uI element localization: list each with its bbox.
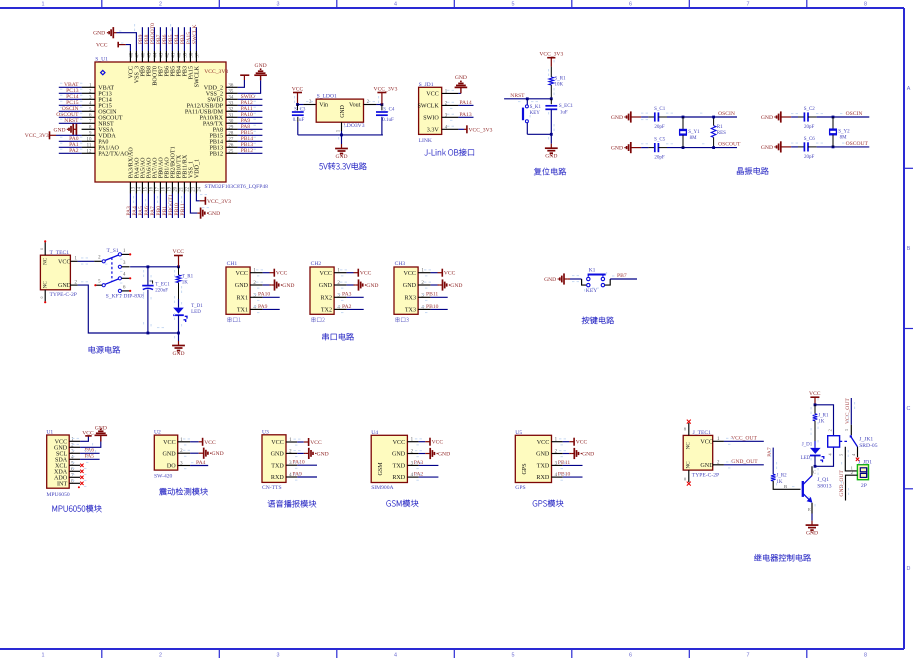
ground at MCU pin 47 VSS_3 — [93, 27, 136, 51]
svg-text:S_R1: S_R1 — [555, 77, 567, 82]
svg-text:SWCLK: SWCLK — [194, 65, 200, 87]
title 5V to 3.3V circuit — [319, 163, 367, 170]
svg-text:PB10: PB10 — [426, 304, 439, 310]
ground at MCU pin 35 VSS_2 — [238, 63, 267, 94]
svg-text:TXD: TXD — [271, 463, 284, 469]
svg-text:8: 8 — [864, 1, 867, 7]
module U1 MPU6050 — [46, 430, 80, 499]
svg-text:U3: U3 — [262, 429, 269, 435]
svg-text:GND: GND — [761, 145, 773, 151]
svg-text:E: E — [808, 507, 811, 512]
wire and net label PA14 on J-Link pin 2 — [458, 100, 473, 106]
power port VCC_3V3 at MCU pin 24 VDD_1 — [196, 194, 231, 205]
svg-text:SIM900A: SIM900A — [371, 485, 393, 491]
junction crystal bottom — [682, 146, 685, 149]
no-connect X on MPU6050 pin 8 — [80, 482, 83, 485]
svg-text:VCC: VCC — [173, 249, 185, 255]
power port VCC on CH3 pin 1 — [431, 269, 456, 277]
power port VCC on U3 pin 1 — [297, 438, 322, 446]
svg-text:20pF: 20pF — [804, 155, 815, 160]
MCU right net label wires SWIO..PB12 — [238, 94, 263, 154]
junction relay VCC node — [814, 403, 817, 406]
svg-text:PB11: PB11 — [426, 292, 438, 298]
svg-text:SWCLK: SWCLK — [192, 25, 198, 45]
svg-text:5: 5 — [512, 1, 515, 7]
svg-text:OSCOUT: OSCOUT — [846, 141, 869, 147]
ground on CH1 pin 2 — [263, 279, 295, 290]
svg-text:GND: GND — [611, 115, 623, 121]
svg-text:GND: GND — [544, 277, 556, 283]
svg-text:PB11: PB11 — [180, 203, 186, 215]
svg-text:GND: GND — [212, 451, 224, 457]
svg-text:A: A — [907, 86, 911, 92]
wire and net label PA2 on U4 pin 4 — [414, 472, 439, 478]
no-connect X on MPU6050 pin 7 — [80, 476, 83, 479]
label serial port 2 — [311, 317, 324, 322]
svg-text:GND: GND — [806, 531, 818, 537]
power port VCC at MCU pin 48 — [96, 42, 130, 51]
svg-text:T_TEC1: T_TEC1 — [50, 250, 70, 256]
svg-text:TYPE-C-2P: TYPE-C-2P — [692, 472, 719, 478]
svg-text:4: 4 — [394, 1, 397, 7]
svg-text:VCC: VCC — [292, 87, 304, 93]
svg-text:VCC: VCC — [96, 42, 108, 48]
svg-text:PA4: PA4 — [196, 460, 206, 466]
power port VCC on MPU6050 pin 1 — [80, 430, 94, 441]
wire J-Link pin 1 to ground — [458, 92, 461, 94]
svg-text:VCC: VCC — [537, 440, 550, 446]
ground symbol (power circuit) — [172, 333, 185, 357]
svg-text:2: 2 — [828, 429, 833, 431]
svg-text:VDD_1: VDD_1 — [194, 159, 200, 178]
power port VCC_3V3 (LDO output) — [374, 87, 398, 105]
svg-text:0.1uF: 0.1uF — [382, 118, 394, 123]
wire and net label PB7 from key — [610, 273, 637, 279]
wire and net label PB10 on CH3 pin 4 — [426, 304, 448, 310]
svg-text:RES: RES — [717, 131, 726, 136]
wire ground to key — [570, 278, 582, 280]
power port VCC_3V3 on J-Link pin 4 — [458, 125, 492, 133]
svg-text:VCC: VCC — [403, 271, 416, 277]
svg-text:J_JD1: J_JD1 — [858, 459, 872, 465]
svg-text:PA2: PA2 — [342, 304, 352, 310]
svg-text:7: 7 — [747, 1, 750, 7]
svg-text:PA2/TX/AO: PA2/TX/AO — [98, 151, 129, 157]
svg-text:OSCOUT: OSCOUT — [718, 142, 741, 148]
svg-text:S_C5: S_C5 — [654, 138, 666, 143]
svg-text:RXD: RXD — [271, 475, 284, 481]
svg-text:TXD: TXD — [393, 464, 406, 470]
resistor R1 RES (feedback) — [711, 117, 726, 148]
svg-text:6: 6 — [629, 1, 632, 7]
svg-text:VCC: VCC — [235, 271, 248, 277]
capacitor EC1 1uF (reset) — [545, 99, 573, 135]
svg-text:VCC: VCC — [360, 271, 372, 277]
svg-text:7: 7 — [747, 653, 750, 658]
connector J_TEC1 TYPE-C-2P (relay output) — [683, 420, 724, 486]
junction crystal top — [832, 116, 835, 119]
label serial port 1 — [227, 317, 240, 322]
junction at VCC column — [177, 265, 180, 268]
svg-text:J_Q1: J_Q1 — [817, 477, 829, 483]
wire and net label PA9 on U3 pin 4 — [292, 471, 317, 477]
title key circuit — [582, 317, 614, 324]
junction at LDO Vin node — [296, 103, 299, 106]
svg-text:8M: 8M — [840, 136, 848, 141]
svg-text:U2: U2 — [154, 430, 161, 436]
wire relay NC contact to J_JD1 pin 1 — [839, 447, 858, 471]
junction at EC1 bottom — [147, 332, 150, 335]
svg-text:NC: NC — [43, 257, 49, 265]
ground (crystal top) — [611, 111, 649, 122]
svg-text:S_KFT DIP-8X8: S_KFT DIP-8X8 — [106, 294, 144, 300]
power port VCC on U4 pin 1 — [419, 438, 444, 446]
svg-text:20pF: 20pF — [804, 125, 815, 130]
junction relay collector node — [814, 465, 817, 468]
svg-text:SW-420: SW-420 — [154, 474, 173, 480]
svg-text:PA9: PA9 — [258, 304, 268, 310]
svg-text:GND: GND — [235, 283, 249, 289]
svg-text:T_R1: T_R1 — [182, 275, 194, 280]
LDO ground rail wire — [298, 134, 383, 136]
svg-text:GND: GND — [455, 75, 467, 81]
junction at EC1 top — [147, 265, 150, 268]
wire and net label PA4 on SW-420 pin 3 — [190, 460, 208, 466]
svg-text:S8013: S8013 — [817, 483, 832, 489]
junction at power ground — [177, 332, 180, 335]
svg-text:J_D1: J_D1 — [802, 442, 813, 447]
title vibration detection module — [159, 488, 208, 495]
connector JD1 J-Link — [417, 82, 458, 144]
svg-text:U1: U1 — [46, 430, 53, 436]
svg-text:20pF: 20pF — [654, 156, 665, 161]
MCU right pin names and numbers 36-25 — [185, 84, 238, 158]
svg-text:GND: GND — [53, 127, 65, 133]
svg-text:2: 2 — [159, 1, 162, 7]
svg-text:PB12: PB12 — [241, 148, 254, 154]
LDO regulator U LDO3V3 — [309, 94, 370, 133]
svg-text:GND: GND — [611, 146, 623, 152]
wire and net label PA10 on U3 pin 3 — [292, 460, 317, 466]
module U5 GPS — [515, 430, 562, 491]
svg-text:OSCIN: OSCIN — [718, 111, 735, 117]
svg-text:3: 3 — [277, 1, 280, 7]
svg-text:GND: GND — [319, 283, 333, 289]
ground at MCU pin 8 VSSA — [53, 124, 76, 136]
resistor J_R1 1K — [813, 405, 829, 448]
pushbutton K1 KEY — [582, 267, 611, 294]
MCU top pin names and numbers 48-37 — [128, 51, 200, 87]
svg-text:VCC_3V3: VCC_3V3 — [25, 133, 49, 139]
svg-text:C: C — [813, 469, 816, 474]
wire and net label PB11 on CH3 pin 3 — [426, 292, 448, 298]
crystal S_Y1 8M — [679, 117, 700, 148]
junction at reset ground node — [550, 133, 553, 136]
svg-text:C: C — [907, 406, 911, 412]
wire and net label PA3 on U4 pin 3 — [414, 460, 439, 466]
MCU left pin names and numbers 1-12 — [82, 84, 130, 158]
capacitor EC1 220uF electrolytic — [142, 267, 170, 333]
ground on U5 pin 2 — [563, 448, 595, 459]
svg-text:OSCIN: OSCIN — [846, 111, 863, 117]
power port VCC on SW-420 pin 1 — [190, 438, 216, 446]
svg-text:GND: GND — [93, 31, 105, 37]
svg-text:VCC: VCC — [319, 271, 332, 277]
svg-text:3: 3 — [844, 429, 849, 431]
svg-text:GND: GND — [545, 154, 557, 160]
svg-text:B: B — [784, 484, 787, 489]
ground on MPU6050 pin 2 — [80, 425, 107, 447]
svg-text:RX2: RX2 — [320, 295, 332, 301]
svg-text:GPS: GPS — [522, 463, 528, 475]
svg-text:VCC_3V3: VCC_3V3 — [204, 69, 228, 75]
title reset circuit — [534, 168, 566, 175]
svg-text:LDO3V3: LDO3V3 — [343, 123, 364, 129]
wire switch pin 3 to VCC node — [130, 266, 178, 268]
MCU top net label wires PB9..SWCLK — [138, 23, 198, 51]
junction at LDO Vout node — [381, 103, 384, 106]
svg-text:RXD: RXD — [536, 475, 549, 481]
svg-text:GND: GND — [700, 463, 714, 469]
svg-text:VCC_3V3: VCC_3V3 — [539, 51, 563, 57]
svg-text:Vout: Vout — [349, 103, 361, 109]
junction crystal top — [682, 116, 685, 119]
svg-text:T_EC1: T_EC1 — [155, 283, 170, 288]
LED D1 (power indicator) — [173, 304, 203, 333]
connector TEC1 TYPE-C-2P (power) — [40, 240, 77, 303]
svg-text:TYPE-C-2P: TYPE-C-2P — [50, 292, 77, 298]
svg-text:TXD: TXD — [537, 464, 550, 470]
svg-text:RX3: RX3 — [404, 295, 416, 301]
ground symbol of LDO circuit — [335, 135, 348, 160]
svg-text:VCC: VCC — [432, 440, 444, 446]
ground (key circuit) — [544, 273, 570, 284]
svg-text:8: 8 — [864, 653, 867, 658]
LDO pin 1 GND lead — [341, 122, 343, 131]
capacitor S_C2 20pF — [798, 107, 817, 130]
svg-text:LED: LED — [191, 310, 201, 315]
svg-text:S_C1: S_C1 — [654, 107, 666, 112]
wire and net label PB11 on U5 pin 3 — [558, 460, 583, 466]
svg-text:5: 5 — [512, 653, 515, 658]
svg-text:4: 4 — [394, 653, 397, 658]
svg-text:GND: GND — [450, 283, 462, 289]
wire OSCOUT rail — [667, 147, 737, 149]
crystal S_Y2 8M — [829, 117, 850, 147]
title crystal oscillator circuit — [737, 167, 769, 174]
wire VCC_OUT to relay common — [845, 398, 851, 425]
svg-text:K1: K1 — [589, 267, 596, 273]
wire VCC node to relay coil — [815, 405, 834, 436]
relay J_K1 SRD-05 coil — [828, 436, 840, 447]
junction reset node — [550, 97, 553, 100]
capacitor C3 0.1uF — [292, 105, 306, 135]
power port VCC (relay) — [809, 391, 821, 405]
svg-text:VCC: VCC — [271, 440, 284, 446]
svg-text:VCC: VCC — [204, 440, 216, 446]
svg-text:GND: GND — [392, 452, 406, 458]
svg-text:J_R1: J_R1 — [818, 413, 829, 418]
svg-text:GND_OUT: GND_OUT — [839, 470, 845, 497]
svg-text:GND: GND — [340, 105, 346, 118]
svg-text:STM32F103C8T6_LQFP48: STM32F103C8T6_LQFP48 — [205, 184, 269, 190]
svg-text:1uF: 1uF — [560, 110, 568, 115]
svg-text:VCC_3V3: VCC_3V3 — [469, 127, 493, 133]
wire OSCIN rail — [667, 116, 737, 118]
svg-text:TX1: TX1 — [237, 308, 248, 314]
svg-text:CN-TTS: CN-TTS — [262, 485, 282, 491]
switch S1 S_KFT DIP-8X8 — [94, 248, 144, 300]
svg-text:220uF: 220uF — [155, 288, 168, 293]
svg-text:GND: GND — [255, 63, 267, 69]
wire and net label PA13 on J-Link pin 3 — [458, 112, 473, 118]
power port VCC on U5 pin 1 — [563, 438, 588, 446]
wire and net label PA7 to base resistor — [767, 447, 773, 474]
wire OSCIN rail — [817, 116, 870, 118]
svg-text:GND: GND — [58, 283, 72, 289]
svg-text:GND: GND — [366, 283, 378, 289]
wire and net label PB10 on U5 pin 4 — [558, 472, 583, 478]
svg-text:U4: U4 — [371, 430, 378, 436]
resistor J_R2 1K (base) — [771, 474, 801, 490]
svg-text:1K: 1K — [776, 480, 783, 485]
wire and net label VCC_OUT on J_TEC1 pin 1 — [724, 436, 764, 442]
svg-text:S_Y2: S_Y2 — [838, 130, 850, 135]
label serial port 3 — [395, 317, 408, 322]
svg-text:B: B — [907, 246, 911, 252]
svg-text:PA14: PA14 — [459, 100, 471, 106]
ground at MCU pin 23 VSS_1 — [190, 194, 220, 219]
ground (crystal top) — [761, 111, 798, 122]
svg-text:PA10: PA10 — [258, 292, 270, 298]
svg-text:8M: 8M — [690, 136, 698, 141]
connector J_JD1 2P — [857, 459, 872, 489]
svg-text:GND: GND — [438, 452, 450, 458]
svg-text:3.3V: 3.3V — [427, 127, 440, 133]
svg-text:S_U1: S_U1 — [95, 57, 108, 63]
svg-text:PB7: PB7 — [617, 273, 627, 279]
svg-text:GND: GND — [282, 283, 294, 289]
svg-text:LINK: LINK — [419, 138, 432, 144]
resistor R1 1K (LED) — [176, 267, 193, 308]
svg-text:T_D1: T_D1 — [191, 304, 203, 309]
wire and net label PA6 on MPU6050 pin 3 — [80, 448, 100, 454]
svg-text:2P: 2P — [861, 483, 867, 489]
svg-text:PA13: PA13 — [459, 112, 471, 118]
svg-text:20pF: 20pF — [654, 125, 665, 130]
MCU bottom pin names and numbers 13-24 — [128, 146, 202, 193]
title GPS模块 — [533, 500, 564, 507]
svg-text:S_C6: S_C6 — [804, 137, 816, 142]
svg-text:VCC: VCC — [700, 440, 713, 446]
svg-text:VCC: VCC — [809, 391, 821, 397]
junction at ground rail — [340, 134, 343, 137]
module U4 SIM900A — [371, 430, 418, 491]
pushbutton K1 KEY (reset) — [523, 99, 551, 135]
svg-text:PA2: PA2 — [69, 148, 79, 154]
module U2 SW-420 vibration sensor — [154, 430, 190, 480]
power port VCC_3V3 at MCU pin 36 VDD_2 — [204, 69, 249, 88]
LED J_D1 — [801, 442, 824, 466]
svg-text:VCC: VCC — [393, 440, 406, 446]
svg-text:PA3: PA3 — [342, 292, 352, 298]
svg-text:GND: GND — [317, 451, 329, 457]
svg-text:KEY: KEY — [586, 288, 598, 294]
connector CH3 serial port — [394, 261, 431, 314]
MCU bottom net label wires PA3..PB11 — [126, 194, 186, 219]
wire GND_OUT from J_JD1 pin 2 — [839, 470, 857, 501]
svg-text:24: 24 — [198, 186, 203, 191]
svg-text:D: D — [907, 566, 911, 572]
ground on U3 pin 2 — [297, 448, 329, 459]
no-connect X on MPU6050 pin 5 — [80, 464, 83, 467]
power port VCC (LDO input) — [292, 87, 304, 105]
svg-text:NC: NC — [685, 442, 691, 450]
wire OSCOUT rail — [817, 146, 870, 148]
ground on SW-420 pin 2 — [190, 448, 224, 459]
title J-Link OB interface — [425, 149, 474, 156]
svg-text:GND: GND — [403, 283, 417, 289]
svg-text:J_JK1: J_JK1 — [859, 436, 873, 442]
wire LDO pin 2 Vout to output node — [364, 104, 377, 106]
svg-text:2: 2 — [159, 653, 162, 658]
svg-text:DO: DO — [167, 464, 176, 470]
ground symbol (reset) — [545, 134, 558, 159]
svg-text:LED: LED — [801, 456, 811, 461]
svg-text:VCC: VCC — [58, 259, 71, 265]
capacitor C4 0.1uF — [376, 105, 395, 135]
svg-text:VCC: VCC — [310, 440, 322, 446]
title GSM模块 — [386, 500, 418, 507]
svg-text:VCC: VCC — [444, 271, 456, 277]
svg-text:INT: INT — [57, 481, 67, 487]
svg-text:1K: 1K — [182, 281, 189, 286]
svg-text:VCC: VCC — [82, 430, 94, 436]
wire relay coil bottom to collector node — [815, 447, 834, 466]
svg-text:SWIO: SWIO — [423, 115, 439, 121]
ground on CH2 pin 2 — [347, 279, 379, 290]
svg-text:GND: GND — [761, 115, 773, 121]
svg-text:J_TEC1: J_TEC1 — [693, 430, 712, 436]
svg-text:GND: GND — [335, 154, 347, 160]
ground (crystal bottom) — [761, 141, 798, 152]
capacitor S_C1 20pF — [648, 107, 667, 130]
svg-text:1: 1 — [42, 1, 45, 7]
wire TEC1 GND down to ground rail — [78, 285, 148, 333]
wire ground rail (power) — [148, 332, 179, 334]
power port VCC_3V3 (reset) — [539, 51, 563, 66]
title serial port circuit — [322, 333, 354, 340]
title MPU6050 module — [53, 505, 102, 512]
svg-text:VCC: VCC — [163, 440, 176, 446]
svg-text:S_JD1: S_JD1 — [419, 82, 434, 88]
svg-text:NC: NC — [43, 281, 49, 289]
wire and net label PA9 on CH1 pin 4 — [258, 304, 280, 310]
capacitor S_C6 20pF — [798, 137, 817, 160]
svg-text:GND: GND — [582, 452, 594, 458]
title power supply circuit — [89, 346, 120, 353]
no-connect X on MPU6050 pin 6 — [80, 470, 83, 473]
svg-text:S_EC1: S_EC1 — [559, 104, 574, 109]
module U3 CN-TTS — [262, 429, 297, 490]
wire Vin node to LDO pin 3 — [298, 104, 304, 106]
svg-text:GND: GND — [95, 425, 107, 431]
wire NRST net — [504, 93, 551, 99]
svg-text:NRST: NRST — [64, 118, 79, 124]
svg-text:GPS: GPS — [515, 485, 525, 491]
svg-text:KEY: KEY — [530, 111, 541, 116]
transistor J_Q1 S8013 NPN — [803, 466, 832, 512]
